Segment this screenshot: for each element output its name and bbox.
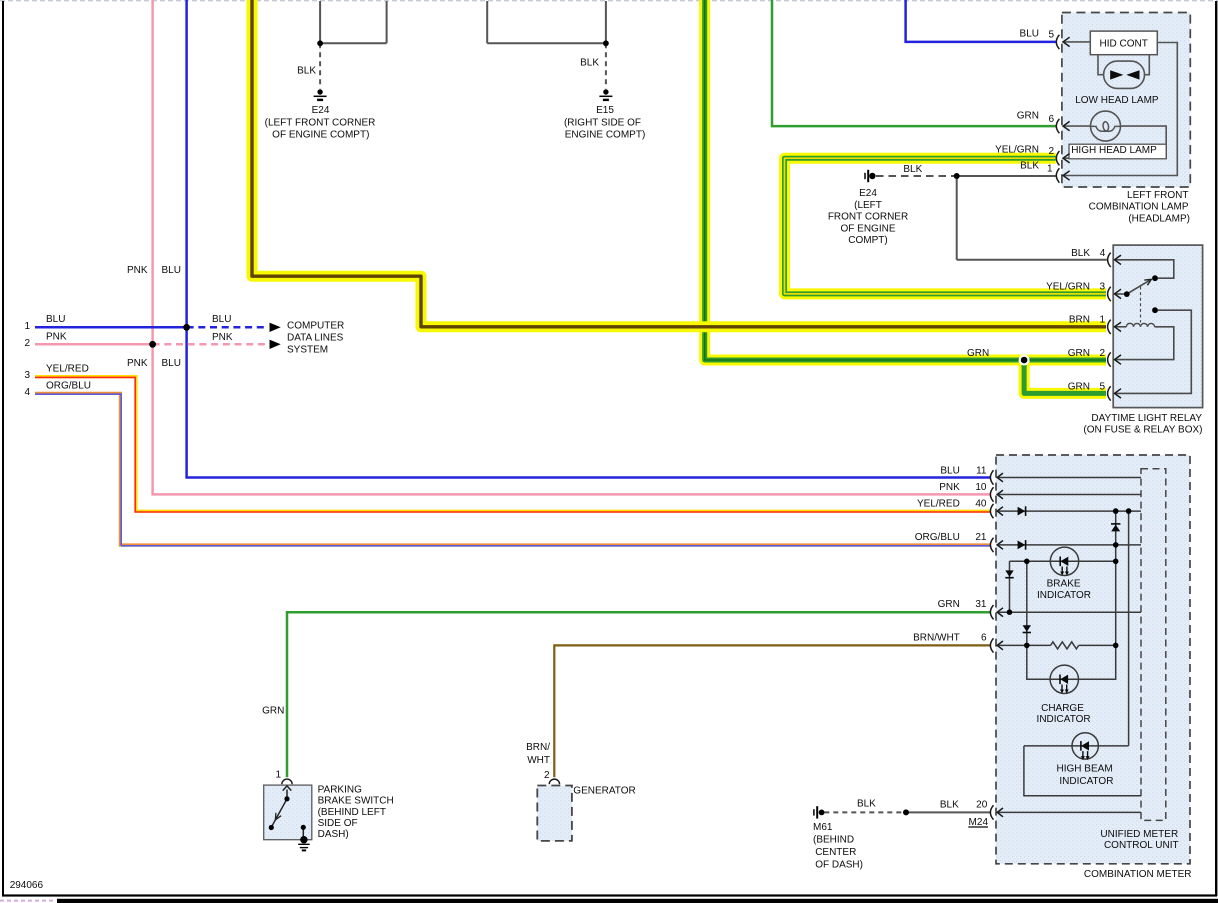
svg-text:5: 5 (1048, 30, 1054, 41)
svg-text:YEL/RED: YEL/RED (917, 499, 960, 510)
svg-text:COMBINATION METER: COMBINATION METER (1084, 869, 1192, 880)
svg-text:31: 31 (975, 599, 987, 610)
svg-text:1: 1 (24, 321, 30, 332)
svg-text:DAYTIME LIGHT RELAY: DAYTIME LIGHT RELAY (1091, 413, 1202, 424)
svg-text:E15: E15 (596, 105, 614, 116)
svg-text:10: 10 (975, 482, 987, 493)
svg-text:INDICATOR: INDICATOR (1059, 776, 1113, 787)
svg-text:BLK: BLK (1020, 160, 1039, 171)
svg-text:21: 21 (975, 532, 987, 543)
svg-text:PNK: PNK (127, 265, 148, 276)
svg-text:YEL/RED: YEL/RED (46, 364, 89, 375)
svg-text:PNK: PNK (127, 358, 148, 369)
svg-text:BLU: BLU (940, 466, 959, 477)
svg-text:BLK: BLK (940, 799, 959, 810)
svg-text:ENGINE COMPT): ENGINE COMPT) (565, 129, 646, 140)
svg-text:2: 2 (1099, 348, 1105, 359)
svg-text:GRN: GRN (938, 599, 960, 610)
svg-text:OF DASH): OF DASH) (815, 859, 863, 870)
svg-text:5: 5 (1099, 381, 1105, 392)
svg-text:(BEHIND LEFT: (BEHIND LEFT (318, 807, 386, 818)
svg-text:BRN: BRN (1069, 315, 1090, 326)
svg-text:PNK: PNK (939, 482, 960, 493)
svg-text:4: 4 (1100, 248, 1106, 259)
svg-text:3: 3 (24, 370, 30, 381)
svg-text:1: 1 (1099, 315, 1105, 326)
svg-text:LOW HEAD LAMP: LOW HEAD LAMP (1075, 95, 1159, 106)
svg-text:M24: M24 (969, 817, 989, 828)
svg-text:2: 2 (24, 338, 30, 349)
svg-text:1: 1 (275, 769, 281, 780)
svg-text:HIGH HEAD LAMP: HIGH HEAD LAMP (1071, 145, 1157, 156)
svg-text:40: 40 (975, 499, 987, 510)
svg-text:(BEHIND: (BEHIND (813, 835, 854, 846)
svg-text:BLU: BLU (46, 314, 65, 325)
svg-text:COMBINATION LAMP: COMBINATION LAMP (1089, 201, 1189, 212)
svg-text:DATA LINES: DATA LINES (287, 333, 344, 344)
svg-text:CHARGE: CHARGE (1041, 703, 1084, 714)
svg-text:BLK: BLK (297, 66, 316, 77)
svg-text:11: 11 (976, 466, 987, 477)
svg-text:BLK: BLK (903, 164, 922, 175)
svg-text:6: 6 (1048, 114, 1054, 125)
svg-text:4: 4 (24, 387, 30, 398)
svg-text:GRN: GRN (967, 348, 989, 359)
svg-text:COMPT): COMPT) (848, 235, 887, 246)
svg-text:(HEADLAMP): (HEADLAMP) (1128, 213, 1190, 224)
svg-text:COMPUTER: COMPUTER (287, 321, 344, 332)
svg-text:WHT: WHT (527, 755, 550, 766)
svg-text:ORG/BLU: ORG/BLU (915, 532, 960, 543)
svg-text:BRN/: BRN/ (526, 742, 550, 753)
svg-text:CONTROL UNIT: CONTROL UNIT (1104, 840, 1179, 851)
svg-text:6: 6 (981, 633, 987, 644)
svg-text:YEL/GRN: YEL/GRN (995, 145, 1039, 156)
svg-text:E24: E24 (312, 105, 330, 116)
svg-text:ORG/BLU: ORG/BLU (46, 381, 91, 392)
svg-text:BLU: BLU (162, 265, 181, 276)
svg-text:PNK: PNK (46, 332, 67, 343)
svg-text:GRN: GRN (262, 706, 284, 717)
svg-text:OF ENGINE: OF ENGINE (840, 223, 895, 234)
svg-text:BLK: BLK (580, 58, 599, 69)
svg-text:GRN: GRN (1068, 381, 1090, 392)
svg-text:BLU: BLU (212, 314, 231, 325)
svg-text:PARKING: PARKING (318, 784, 362, 795)
svg-text:BRAKE SWITCH: BRAKE SWITCH (318, 796, 394, 807)
svg-text:GENERATOR: GENERATOR (573, 785, 635, 796)
svg-text:BLU: BLU (162, 358, 181, 369)
svg-text:294066: 294066 (10, 880, 44, 891)
svg-text:UNIFIED METER: UNIFIED METER (1100, 829, 1178, 840)
svg-text:HIGH BEAM: HIGH BEAM (1057, 764, 1113, 775)
svg-text:(ON FUSE & RELAY BOX): (ON FUSE & RELAY BOX) (1083, 424, 1202, 435)
svg-text:INDICATOR: INDICATOR (1037, 714, 1091, 725)
svg-text:(LEFT: (LEFT (854, 200, 882, 211)
svg-text:M61: M61 (813, 822, 833, 833)
svg-text:OF ENGINE COMPT): OF ENGINE COMPT) (272, 129, 369, 140)
svg-text:BRAKE: BRAKE (1047, 578, 1081, 589)
svg-text:GRN: GRN (1017, 111, 1039, 122)
svg-text:(RIGHT SIDE OF: (RIGHT SIDE OF (564, 117, 641, 128)
svg-text:2: 2 (1048, 146, 1054, 157)
svg-text:CENTER: CENTER (815, 847, 856, 858)
svg-text:GRN: GRN (1068, 348, 1090, 359)
svg-text:BLU: BLU (1020, 28, 1039, 39)
svg-text:SIDE OF: SIDE OF (318, 818, 358, 829)
svg-text:(LEFT FRONT CORNER: (LEFT FRONT CORNER (265, 117, 376, 128)
svg-text:E24: E24 (859, 188, 877, 199)
svg-text:HID CONT: HID CONT (1100, 39, 1148, 50)
svg-text:SYSTEM: SYSTEM (287, 345, 328, 356)
svg-text:BRN/WHT: BRN/WHT (913, 633, 960, 644)
svg-text:3: 3 (1099, 281, 1105, 292)
svg-text:LEFT FRONT: LEFT FRONT (1127, 190, 1188, 201)
svg-text:FRONT CORNER: FRONT CORNER (828, 212, 908, 223)
svg-text:1: 1 (1047, 163, 1053, 174)
svg-text:PNK: PNK (212, 332, 233, 343)
svg-text:BLK: BLK (1071, 248, 1090, 259)
svg-text:DASH): DASH) (318, 829, 349, 840)
svg-text:INDICATOR: INDICATOR (1037, 590, 1091, 601)
svg-text:20: 20 (976, 799, 988, 810)
svg-text:YEL/GRN: YEL/GRN (1046, 281, 1090, 292)
svg-text:BLK: BLK (857, 799, 876, 810)
svg-text:2: 2 (544, 770, 550, 781)
